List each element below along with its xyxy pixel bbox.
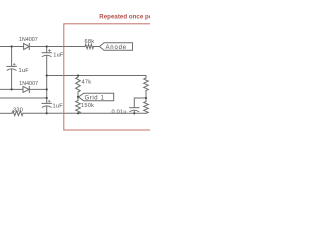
resistor R2 330 zigzag bbox=[12, 111, 23, 116]
wire 47k to grid node bbox=[77, 92, 79, 101]
svg-text:1N4007: 1N4007 bbox=[19, 81, 38, 87]
svg-text:1uF: 1uF bbox=[53, 104, 64, 110]
junction node grid tap bbox=[77, 96, 79, 98]
wire line A rail2 to rail3 bbox=[46, 76, 48, 99]
svg-text:Grid 1: Grid 1 bbox=[85, 95, 105, 101]
svg-text:Anode: Anode bbox=[106, 45, 127, 51]
net tag Anode outline bbox=[100, 43, 133, 51]
capacitor C1 plates bbox=[7, 65, 16, 67]
resistor R1 68k zigzag bbox=[85, 44, 94, 48]
junction node rail4 C4 bbox=[133, 112, 135, 114]
junction node rail2 C1 bbox=[11, 88, 13, 90]
capacitor C2 plates bbox=[42, 52, 51, 54]
resistor R4 150k zigzag bbox=[76, 101, 81, 114]
svg-text:68k: 68k bbox=[85, 39, 95, 45]
junction node right mid tap bbox=[145, 97, 147, 99]
wire right branch upper lead bbox=[145, 76, 147, 79]
capacitor C4 bottom lead bbox=[133, 112, 135, 114]
capacitor C3 plates bbox=[42, 102, 51, 104]
junction node rail4 C3 bbox=[46, 112, 48, 114]
wire rail2 bbox=[0, 88, 23, 90]
wire rail4 main bbox=[23, 112, 146, 114]
junction node rail1 C2 bbox=[46, 45, 48, 47]
diode D2 1N4007 bbox=[23, 86, 29, 92]
junction node top wire 47k bbox=[77, 74, 79, 76]
wire capacitor C4 top tap bbox=[134, 98, 146, 107]
svg-text:1uF: 1uF bbox=[19, 68, 30, 74]
capacitor C1 1uF vertical leads bbox=[11, 47, 13, 66]
capacitor C1 plus mark bbox=[13, 63, 15, 65]
resistor R5 right upper zigzag bbox=[144, 78, 149, 91]
capacitor C3 plus mark bbox=[48, 100, 50, 102]
svg-text:1uF: 1uF bbox=[53, 53, 64, 59]
wire right branch middle bbox=[145, 91, 147, 102]
resistor R3 47k zigzag bbox=[76, 77, 81, 92]
svg-text:330: 330 bbox=[13, 108, 23, 114]
resistor R6 right lower zigzag bbox=[144, 102, 149, 114]
annotation red box bbox=[64, 24, 156, 130]
junction node cell top tap bbox=[46, 74, 48, 76]
diode D1 1N4007 bbox=[24, 44, 30, 50]
capacitor C4 0.01u plates bbox=[130, 107, 139, 109]
wire rail3 bbox=[0, 97, 47, 99]
capacitor C3 1uF leads bbox=[46, 98, 48, 103]
junction node rail1 C1 bbox=[11, 45, 13, 47]
wire rail4 left bbox=[0, 112, 12, 114]
svg-text:0.01u: 0.01u bbox=[112, 110, 127, 116]
wire rail1 mid bbox=[29, 46, 85, 48]
wire top of repeated cell bbox=[47, 75, 146, 77]
net tag Grid 1 outline bbox=[79, 93, 114, 100]
capacitor C2 1uF leads on line A bbox=[46, 47, 48, 53]
wire rail1 top bbox=[0, 46, 24, 48]
svg-text:Repeated once per: Repeated once per bbox=[99, 14, 150, 21]
junction node rail2 line A bbox=[46, 88, 48, 90]
svg-text:1N4007: 1N4007 bbox=[19, 37, 38, 43]
junction node rail4 150k bbox=[77, 112, 79, 114]
svg-text:150k: 150k bbox=[81, 103, 94, 109]
junction node rail3 line A bbox=[46, 97, 48, 99]
svg-text:47k: 47k bbox=[82, 80, 92, 86]
capacitor C2 plus mark bbox=[49, 50, 51, 52]
wire 47k upper lead bbox=[77, 76, 79, 78]
wire resistor to anode tag bbox=[94, 46, 100, 48]
